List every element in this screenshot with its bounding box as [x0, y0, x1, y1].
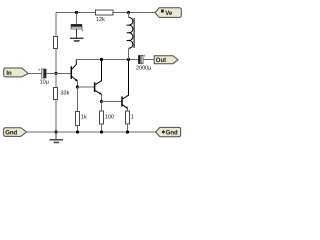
wire In to capacitor — [28, 73, 42, 75]
wire Q1 emitter to Q2 base — [78, 86, 95, 88]
svg-text:Out: Out — [156, 58, 166, 64]
node junction R5 rail — [100, 130, 103, 133]
port tag Gnd — [4, 128, 27, 137]
svg-text:In: In — [6, 71, 12, 77]
svg-text:12k: 12k — [96, 17, 105, 23]
port tag Out — [154, 56, 178, 64]
port tag +Ve — [155, 8, 181, 18]
wire bypass column — [76, 13, 78, 25]
node junction R4 rail — [76, 130, 79, 133]
svg-text:Gnd: Gnd — [5, 130, 17, 136]
wire bypass to ground — [76, 29, 78, 38]
wire Q2 emitter node down to R5 — [101, 102, 103, 112]
wire R5 to rail — [101, 124, 103, 132]
capacitor C3 2000u — [136, 54, 152, 72]
resistor R3 12k — [96, 10, 114, 23]
svg-text:10µ: 10µ — [40, 79, 50, 85]
ground earth symbol bypass — [70, 38, 84, 42]
wire stub to ground symbol — [55, 132, 57, 139]
wire bottom ground rail — [27, 131, 156, 133]
svg-text:1k: 1k — [81, 115, 87, 121]
node junction top inductor — [127, 11, 130, 14]
wire Q3 emitter down to R6 — [127, 109, 129, 111]
node junction top bypass — [75, 11, 78, 14]
resistor R2 33k — [54, 88, 70, 100]
wire top rail left segment — [56, 12, 96, 14]
node junction Q2 emitter — [100, 100, 103, 103]
node junction Q1 emitter — [76, 85, 79, 88]
wire left column upper — [55, 13, 57, 37]
wire R4 to rail — [77, 126, 79, 133]
node junction ground rail left — [54, 130, 57, 133]
resistor R6 1 — [126, 111, 134, 124]
ground earth symbol bottom — [50, 140, 64, 144]
wire Q2 emitter to Q3 base — [102, 101, 122, 103]
wire Q1 emitter node down to R4 — [77, 87, 79, 111]
svg-text:Ve: Ve — [165, 11, 173, 17]
transistor Q1 — [71, 60, 78, 88]
svg-text:+: + — [38, 67, 41, 72]
wire C3 to Out tag — [143, 59, 154, 61]
svg-text:100: 100 — [105, 115, 114, 121]
capacitor C1 10u — [38, 67, 50, 85]
port tag In — [4, 68, 29, 77]
node junction output — [127, 58, 130, 61]
transistor Q2 — [95, 60, 102, 102]
wire output row — [76, 59, 138, 61]
svg-text:Gnd: Gnd — [166, 131, 178, 137]
transistor Q3 — [122, 60, 129, 109]
wire top rail right segment — [113, 12, 156, 14]
svg-text:2000µ: 2000µ — [136, 66, 152, 72]
node junction Q2 collector — [100, 58, 103, 61]
resistor R4 1k — [76, 112, 88, 126]
resistor R5 100 — [100, 111, 114, 124]
wire left column mid — [55, 49, 57, 74]
wire R6 to rail — [127, 124, 129, 132]
wire left column below input — [55, 74, 57, 88]
node junction input — [54, 72, 57, 75]
inductor L1 — [127, 13, 134, 60]
wire capacitor to Q1 base — [46, 73, 71, 75]
resistor R1 — [54, 37, 58, 49]
svg-text:1: 1 — [131, 115, 134, 121]
svg-text:33k: 33k — [61, 91, 70, 97]
node junction R6 rail — [126, 130, 129, 133]
wire left column lower — [55, 100, 57, 133]
port tag +Gnd — [156, 127, 181, 136]
capacitor C2 supply bypass — [71, 24, 84, 33]
